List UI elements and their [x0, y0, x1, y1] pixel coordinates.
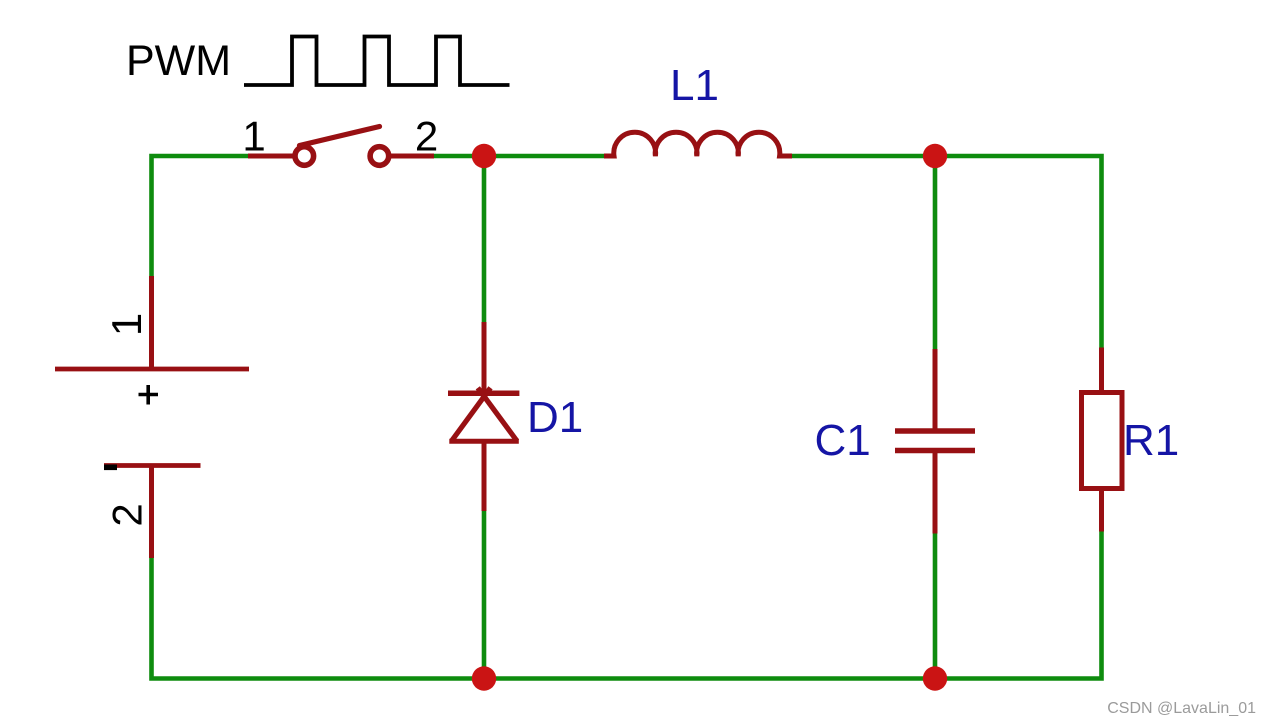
switch SW terminal circle 1: [295, 147, 314, 166]
battery BT1 minus sign: [104, 465, 117, 471]
battery BT1 pin 2 wire: [149, 466, 154, 559]
junction node: capacitor bottom / ground rail: [923, 666, 947, 690]
svg-text:1: 1: [103, 313, 150, 336]
svg-text:PWM: PWM: [126, 37, 231, 85]
resistor R1 pin wire lower: [1099, 489, 1104, 532]
wire: diode branch upper (green): [482, 156, 487, 322]
battery BT1 positive plate: [55, 367, 249, 372]
diode D1 pin wire lower: [482, 441, 487, 511]
diode D1 triangle left side: [452, 388, 491, 441]
svg-text:D1: D1: [527, 393, 583, 442]
svg-text:2: 2: [415, 113, 438, 160]
switch SW pin 1 wire: [248, 154, 294, 159]
capacitor C1 pin wire upper: [933, 349, 938, 431]
resistor R1 pin wire upper: [1099, 348, 1104, 393]
capacitor C1 pin wire lower: [933, 451, 938, 534]
resistor R1 body: [1082, 393, 1123, 489]
wire: top right (inductor to right corner) + right vertical upper (green): [792, 156, 1102, 348]
capacitor C1 bottom plate: [895, 448, 975, 453]
switch SW terminal circle 2: [370, 147, 389, 166]
inductor L1 coil: [604, 132, 792, 156]
PWM waveform: [244, 37, 510, 86]
capacitor C1 top plate: [895, 428, 975, 433]
diode D1 triangle right side: [478, 388, 517, 441]
diode D1 pin wire upper (cathode): [482, 322, 487, 399]
junction node: diode bottom / ground rail: [472, 666, 496, 690]
svg-text:1: 1: [242, 113, 265, 160]
junction node: inductor output / capacitor top: [923, 144, 947, 168]
svg-text:L1: L1: [670, 61, 719, 110]
wire: left vertical lower + bottom horizontal + right vertical lower (green): [152, 532, 1102, 679]
svg-text:2: 2: [104, 503, 151, 526]
switch SW blade: [300, 127, 380, 146]
wire: top middle (switch to inductor, green): [434, 154, 604, 159]
svg-text:CSDN @LavaLin_01: CSDN @LavaLin_01: [1107, 700, 1256, 717]
switch SW pin 2 wire: [390, 154, 435, 159]
wire: diode branch lower (green): [482, 511, 487, 679]
wire: capacitor branch lower (green): [933, 534, 938, 679]
junction node: switch output / diode top: [472, 144, 496, 168]
battery BT1 negative plate: [104, 463, 201, 468]
svg-text:R1: R1: [1123, 416, 1179, 465]
wire: capacitor branch upper (green): [933, 156, 938, 349]
svg-text:C1: C1: [815, 416, 871, 465]
diode D1 cathode bar: [448, 390, 519, 396]
wire: top-left horizontal + left vertical upper (green): [152, 156, 249, 276]
battery BT1 pin 1 wire: [149, 276, 154, 369]
diode D1 triangle base (anode): [449, 439, 519, 444]
battery BT1 plus sign: [139, 385, 159, 405]
